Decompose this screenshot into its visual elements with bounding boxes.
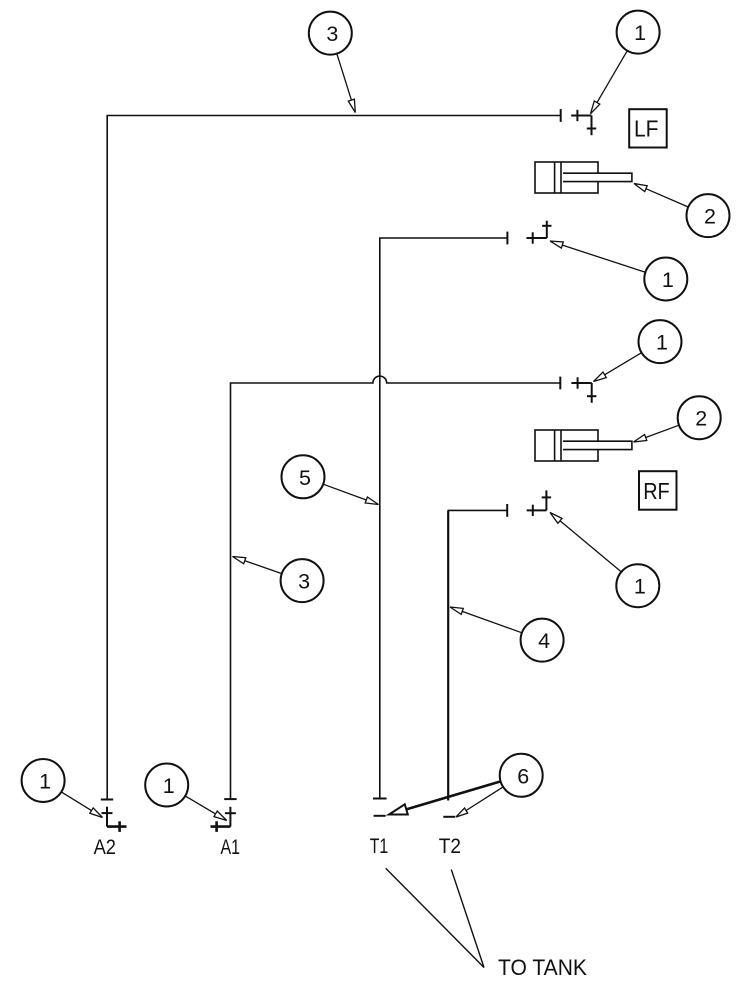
label box RF — [639, 471, 677, 510]
wire T1 to tank note — [386, 868, 484, 967]
callout balloon 1 F3 — [639, 320, 682, 363]
balloon 1 A2 leader — [61, 792, 102, 818]
svg-text:A2: A2 — [94, 835, 116, 859]
cylinder RF body — [535, 430, 632, 461]
svg-text:TO TANK: TO TANK — [498, 955, 587, 980]
callout balloon 3 top — [309, 12, 352, 55]
fitting A1 elbow: coupler plus and elbow — [211, 807, 236, 832]
svg-text:2: 2 — [695, 407, 707, 431]
hose 4: horizontal run — [448, 510, 507, 512]
balloon 1 F4 leader — [550, 513, 621, 572]
fitting F3 (hose 3 at RF): coupler plus and elbow — [571, 377, 596, 403]
svg-text:T2: T2 — [439, 834, 461, 858]
fitting A1 elbow: hose-end tick — [224, 798, 236, 800]
svg-text:3: 3 — [326, 22, 338, 46]
fitting F2 (hose 5): hose-end tick — [506, 232, 508, 245]
label box LF — [629, 109, 667, 147]
cylinder RF rod — [563, 441, 632, 449]
port T1 end tick — [373, 798, 387, 800]
svg-text:1: 1 — [163, 774, 175, 798]
balloon 1 F3 leader — [594, 353, 642, 382]
fitting F1 (hose 3 at LF): hose-end tick — [560, 109, 562, 122]
svg-text:4: 4 — [538, 629, 550, 653]
callout balloon 1 A2 — [22, 759, 65, 802]
balloon 2 LF leader — [634, 184, 688, 208]
svg-text:1: 1 — [656, 331, 668, 355]
fitting F3 (hose 3 at RF): hose-end tick — [559, 377, 561, 390]
callout balloon 5 — [282, 455, 325, 498]
balloon 4 leader — [450, 607, 522, 633]
cylinder LF rod — [563, 173, 632, 181]
fitting F4 (hose 4): coupler plus and elbow — [527, 490, 552, 516]
callout balloon 2 RF — [678, 396, 721, 439]
balloon 5 leader — [323, 484, 378, 504]
balloon 6 to T2 leader — [456, 787, 503, 817]
callout balloon 3 lower — [281, 559, 324, 602]
balloon 1 F2 leader — [550, 241, 645, 272]
callout balloon 6 — [500, 754, 543, 797]
svg-text:LF: LF — [634, 116, 659, 142]
balloon 3 lower leader — [233, 557, 282, 574]
balloon 1 A1 leader — [185, 796, 227, 821]
svg-text:3: 3 — [298, 570, 310, 594]
svg-text:1: 1 — [634, 21, 646, 45]
svg-text:1: 1 — [662, 268, 674, 292]
wire T2 to tank note — [451, 870, 484, 968]
callout balloon 1 F2 — [644, 258, 687, 301]
fitting A2 elbow: hose-end tick — [101, 799, 113, 801]
svg-text:A1: A1 — [221, 835, 241, 859]
svg-text:6: 6 — [517, 764, 529, 788]
callout balloon 2 LF — [687, 194, 730, 237]
callout balloon 1 F4 — [616, 564, 659, 607]
hose 5: horizontal run and drop to port T1 — [380, 238, 508, 799]
callout balloon 1 A1 — [145, 764, 188, 807]
cylinder LF body — [535, 162, 632, 193]
fitting F1 (hose 3 at LF): coupler plus and elbow — [571, 110, 596, 135]
svg-text:RF: RF — [643, 478, 670, 504]
port T2 dash — [443, 816, 455, 818]
callout balloon 4 — [521, 619, 564, 662]
balloon 3 top leader — [337, 54, 356, 113]
fitting F4 (hose 4): hose-end tick — [506, 504, 508, 517]
callout balloon 1 top — [617, 11, 660, 54]
svg-text:5: 5 — [299, 466, 311, 490]
svg-text:1: 1 — [39, 770, 51, 794]
svg-text:T1: T1 — [370, 834, 389, 858]
hose 3 (RF): horizontal run with hop over hose 5, drop to port A1 — [231, 376, 561, 799]
hose 4: heavy drop to port T2 — [447, 511, 449, 801]
svg-text:2: 2 — [704, 205, 716, 229]
balloon 1 top leader — [591, 51, 628, 114]
hose 3 (LF): horizontal run and drop to port A2 — [107, 116, 561, 800]
fitting A2 elbow: coupler plus and elbow — [102, 807, 127, 832]
port T1 dash — [374, 815, 386, 817]
svg-text:1: 1 — [634, 575, 646, 599]
fitting F2 (hose 5): coupler plus and elbow — [527, 221, 552, 244]
balloon 2 RF leader — [634, 425, 680, 442]
balloon 6 to T1 leader — [389, 781, 501, 814]
